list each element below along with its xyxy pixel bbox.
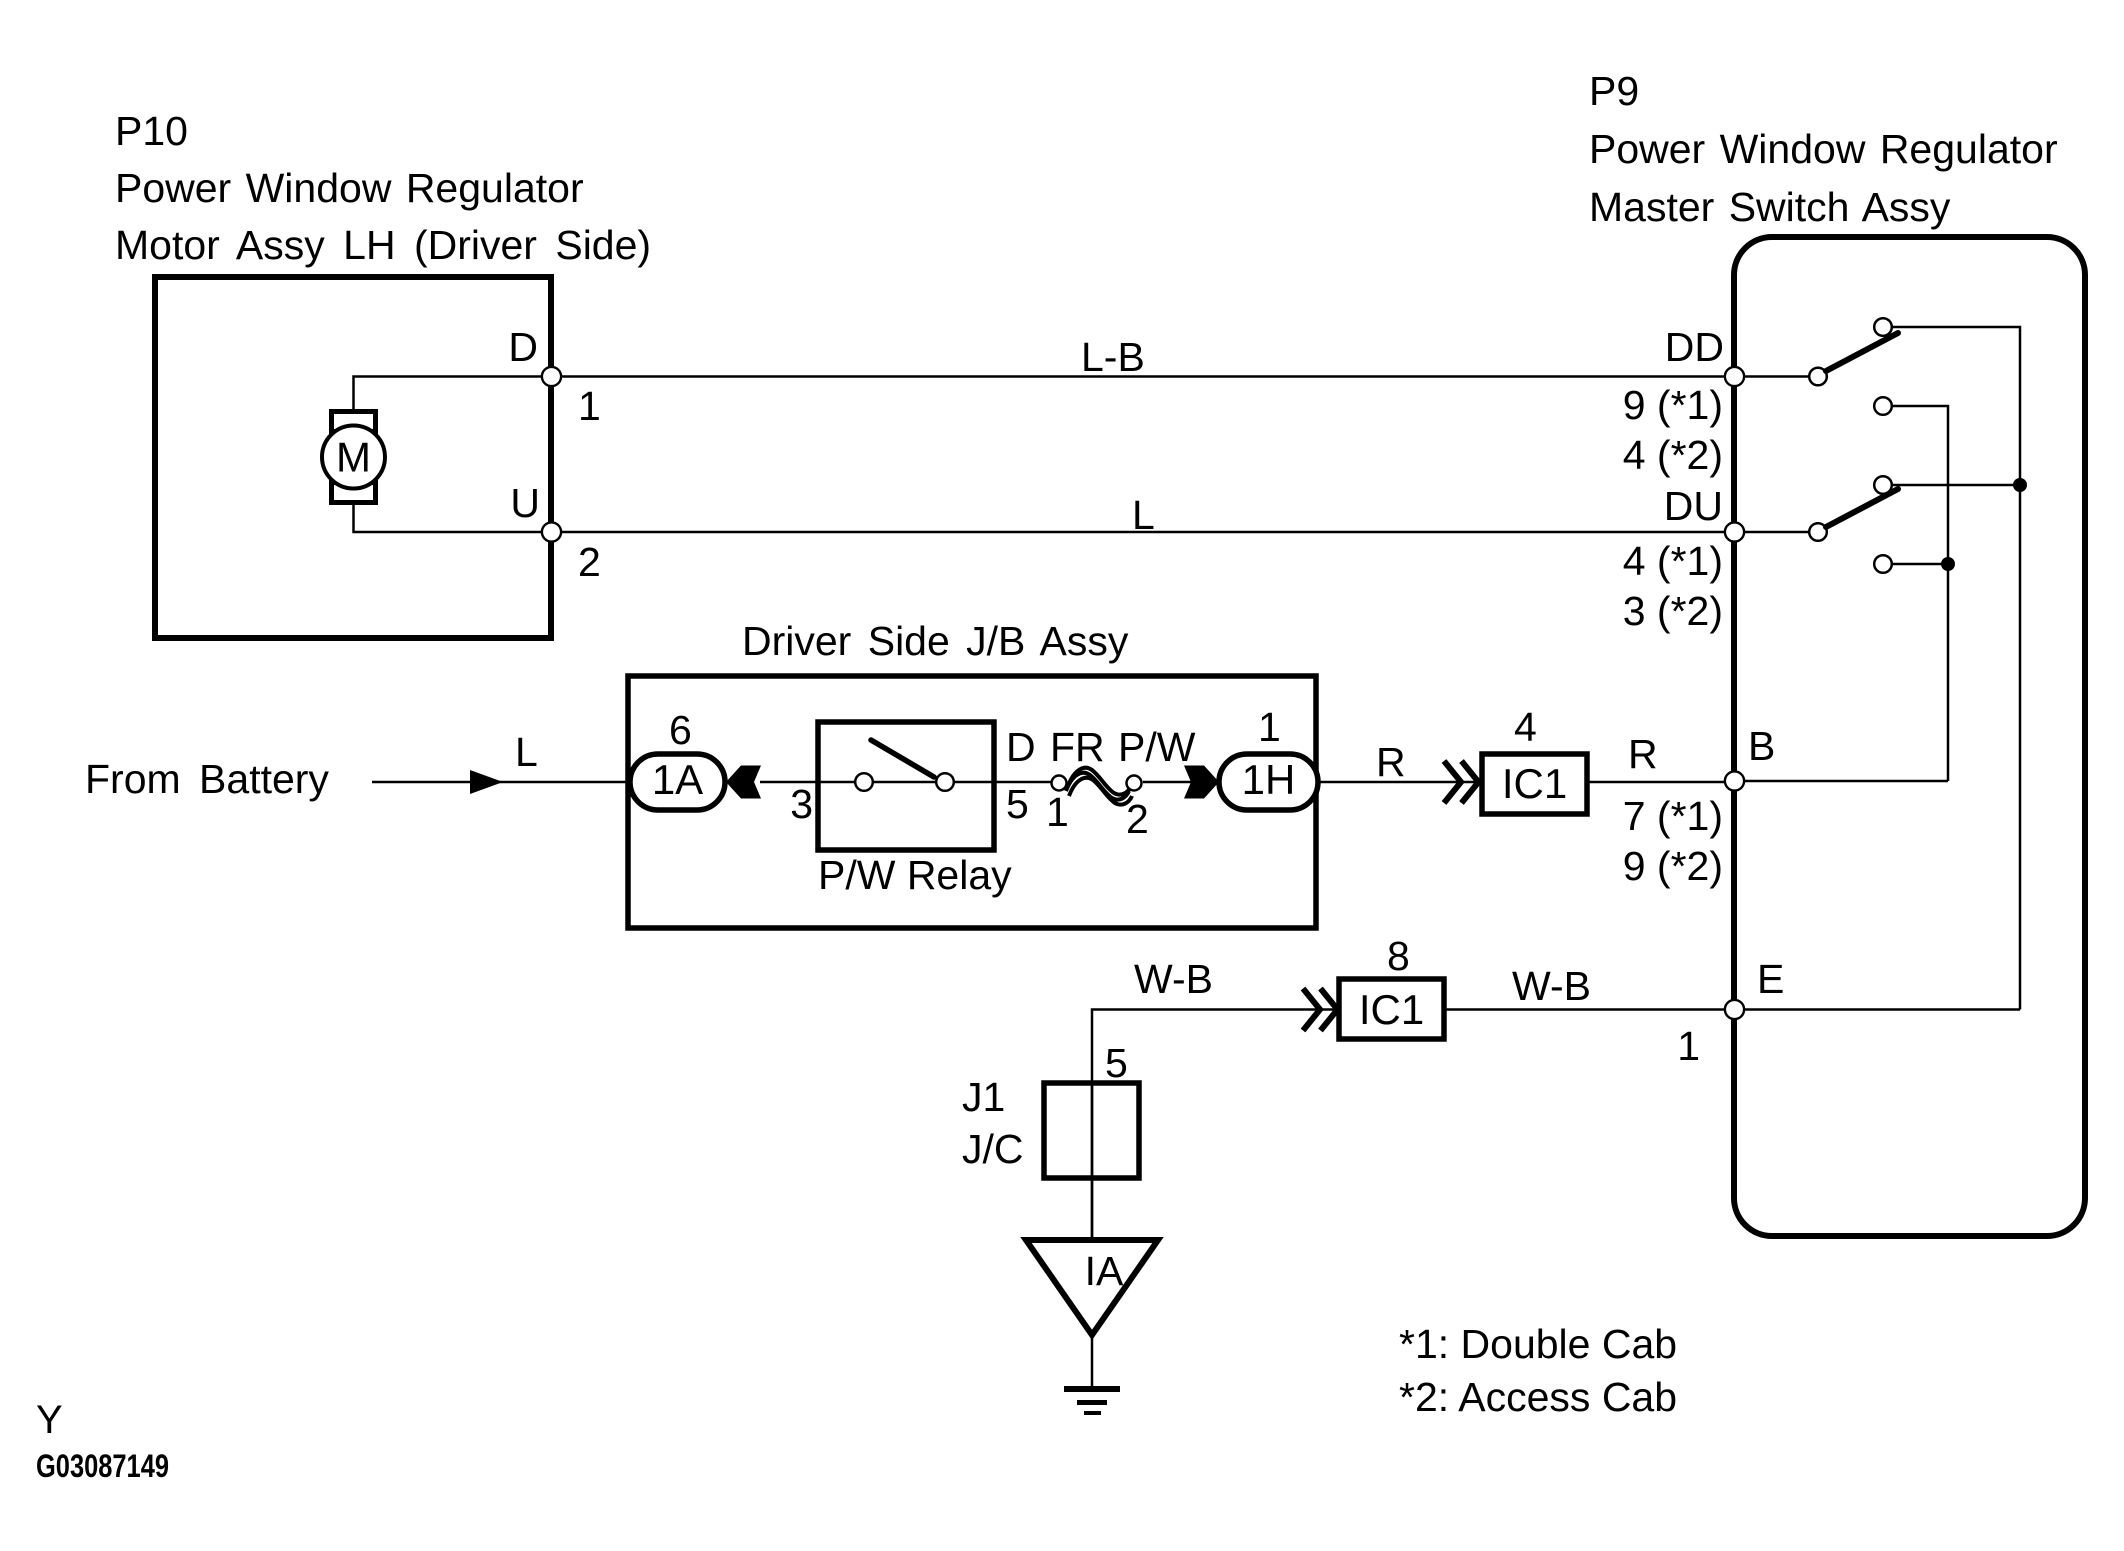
- wire motor to terminal U: [354, 501, 552, 532]
- battery feed wire: [372, 781, 631, 784]
- svg-text:U: U: [510, 480, 540, 526]
- svg-text:4 (*2): 4 (*2): [1623, 432, 1723, 478]
- svg-text:5: 5: [1105, 1040, 1128, 1086]
- wire DD terminal to switch pivot: [1745, 375, 1809, 378]
- ground symbol: [1064, 1389, 1120, 1413]
- svg-text:J/C: J/C: [962, 1126, 1024, 1172]
- ground triangle IA: [1026, 1240, 1158, 1335]
- svg-text:1: 1: [578, 383, 601, 429]
- svg-text:G03087149: G03087149: [36, 1448, 169, 1484]
- terminal B: [1623, 723, 1776, 889]
- svg-text:L: L: [1132, 492, 1155, 538]
- arrow into 1A: [726, 766, 761, 799]
- wire R from IC1 to terminal B: [1587, 781, 1724, 784]
- svg-text:From Battery: From Battery: [85, 756, 329, 802]
- svg-text:W-B: W-B: [1512, 963, 1591, 1009]
- chevrons into IC1 pin 8: [1303, 989, 1338, 1031]
- svg-text:9 (*1): 9 (*1): [1623, 382, 1723, 428]
- svg-text:IC1: IC1: [1502, 760, 1567, 807]
- svg-text:4 (*1): 4 (*1): [1623, 538, 1723, 584]
- svg-text:2: 2: [578, 539, 601, 585]
- connector IC1 pin 8: [1339, 933, 1444, 1039]
- svg-text:4: 4: [1514, 704, 1537, 750]
- wire motor to terminal D: [354, 377, 552, 414]
- relay contact right: [936, 773, 954, 791]
- terminal DU circle: [1725, 522, 1744, 541]
- chevrons into IC1 pin 4: [1444, 761, 1479, 803]
- svg-text:9 (*2): 9 (*2): [1623, 843, 1723, 889]
- svg-text:1: 1: [1258, 704, 1281, 750]
- wire pin 2 to 1H: [1143, 781, 1200, 784]
- relay arm: [871, 740, 934, 777]
- svg-text:D: D: [1006, 724, 1036, 770]
- terminal U pin 2: [510, 480, 600, 585]
- connector 1A pin 6: [630, 707, 725, 810]
- svg-text:P/W: P/W: [1118, 724, 1196, 770]
- svg-text:P/W Relay: P/W Relay: [818, 852, 1012, 898]
- wire triangle to ground: [1091, 1335, 1094, 1387]
- terminal E pin 1: [1677, 956, 1784, 1069]
- switch DU pivot contact: [1809, 523, 1827, 541]
- svg-text:W-B: W-B: [1134, 956, 1213, 1002]
- FR P/W connector pin 1: [1046, 776, 1069, 836]
- svg-text:M: M: [336, 434, 371, 481]
- wire relay internal: [874, 781, 935, 784]
- connector P9 title: [1589, 68, 2058, 230]
- FR P/W squiggle: [1066, 768, 1132, 805]
- battery wire arrow: [470, 770, 503, 794]
- junction dot inner bus: [1941, 557, 1955, 571]
- svg-text:J1: J1: [962, 1074, 1005, 1120]
- wire DD up-contact to right bus: [1892, 327, 2020, 1010]
- svg-text:DD: DD: [1665, 324, 1724, 370]
- Driver Side J/B Assy box: [628, 618, 1316, 928]
- svg-text:1: 1: [1046, 789, 1069, 835]
- svg-text:Power Window Regulator: Power Window Regulator: [1589, 126, 2058, 172]
- wire W-B from J/C corner to IC1 pin 8: [1092, 1010, 1339, 1084]
- svg-text:Master Switch Assy: Master Switch Assy: [1589, 184, 1951, 230]
- P9 master switch box: [1734, 237, 2085, 1236]
- svg-text:Y: Y: [36, 1398, 63, 1442]
- switch DD arm: [1826, 333, 1898, 371]
- svg-text:7 (*1): 7 (*1): [1623, 793, 1723, 839]
- svg-text:R: R: [1628, 731, 1658, 777]
- terminal DU: [1623, 483, 1723, 634]
- switch DD upper contact: [1874, 318, 1892, 336]
- switch DD pivot contact: [1809, 368, 1827, 386]
- svg-text:IA: IA: [1085, 1248, 1124, 1294]
- terminal DD circle: [1725, 367, 1744, 386]
- svg-text:3 (*2): 3 (*2): [1623, 588, 1723, 634]
- wire J/C vertical: [1091, 1083, 1094, 1240]
- svg-text:E: E: [1757, 956, 1784, 1002]
- wire DU down-contact to inner bus junction: [1892, 563, 1948, 566]
- svg-text:2: 2: [1126, 796, 1149, 842]
- svg-text:FR: FR: [1050, 724, 1105, 770]
- svg-text:Driver Side J/B Assy: Driver Side J/B Assy: [742, 618, 1129, 664]
- svg-text:8: 8: [1387, 933, 1410, 979]
- svg-text:D: D: [508, 324, 538, 370]
- junction dot right bus: [2013, 478, 2027, 492]
- motor M1: [322, 412, 385, 503]
- switch DD lower contact: [1874, 397, 1892, 415]
- svg-text:Power Window Regulator: Power Window Regulator: [115, 165, 584, 211]
- svg-text:R: R: [1376, 739, 1406, 785]
- P10 motor assy box: [155, 277, 551, 638]
- svg-text:*2: Access Cab: *2: Access Cab: [1399, 1374, 1677, 1420]
- svg-text:5: 5: [1006, 781, 1029, 827]
- switch DU upper contact: [1874, 476, 1892, 494]
- wire E to right bus: [1745, 1008, 2020, 1011]
- svg-text:1A: 1A: [652, 756, 703, 803]
- wire L from U to DU: [562, 531, 1724, 534]
- connector P10 title: [115, 108, 651, 268]
- FR P/W connector pin 2: [1126, 776, 1149, 843]
- connector 1H pin 1: [1219, 704, 1318, 810]
- terminal D pin 1: [508, 324, 600, 429]
- svg-text:L-B: L-B: [1081, 334, 1145, 380]
- P/W relay box: [818, 722, 1012, 898]
- svg-text:Motor Assy LH (Driver Side): Motor Assy LH (Driver Side): [115, 222, 651, 268]
- relay contact left: [855, 773, 873, 791]
- svg-text:6: 6: [669, 707, 692, 753]
- svg-text:1: 1: [1677, 1023, 1700, 1069]
- arrow into 1H: [1184, 766, 1219, 799]
- wire L-B from D to DD: [562, 375, 1724, 378]
- wire 1A to P/W relay: [760, 781, 855, 784]
- svg-text:P9: P9: [1589, 68, 1639, 114]
- wire DU up-contact to right bus junction: [1892, 484, 2020, 487]
- wire DD down-contact to inner bus: [1892, 406, 1948, 781]
- switch DU arm: [1826, 489, 1898, 527]
- svg-text:1H: 1H: [1242, 756, 1296, 803]
- wire DU terminal to switch pivot: [1745, 531, 1809, 534]
- wire B to inner bus: [1745, 780, 1948, 783]
- svg-text:DU: DU: [1664, 483, 1723, 529]
- wire W-B from IC1 to terminal E: [1444, 1008, 1724, 1011]
- svg-text:3: 3: [790, 781, 813, 827]
- svg-text:P10: P10: [115, 108, 188, 154]
- svg-text:IC1: IC1: [1359, 986, 1424, 1033]
- junction connector J1 J/C pin 5: [962, 1040, 1139, 1178]
- wire R from 1H to IC1: [1318, 781, 1482, 784]
- svg-text:*1: Double Cab: *1: Double Cab: [1399, 1321, 1677, 1367]
- label D FR P/W: [1006, 724, 1196, 770]
- wire relay to FR P/W pin 1: [955, 781, 1051, 784]
- svg-text:B: B: [1748, 723, 1775, 769]
- connector IC1 pin 4: [1482, 704, 1587, 814]
- wire J/C to ground triangle: [1091, 1178, 1094, 1240]
- terminal DD: [1623, 324, 1724, 478]
- svg-text:L: L: [515, 729, 538, 775]
- switch DU lower contact: [1874, 555, 1892, 573]
